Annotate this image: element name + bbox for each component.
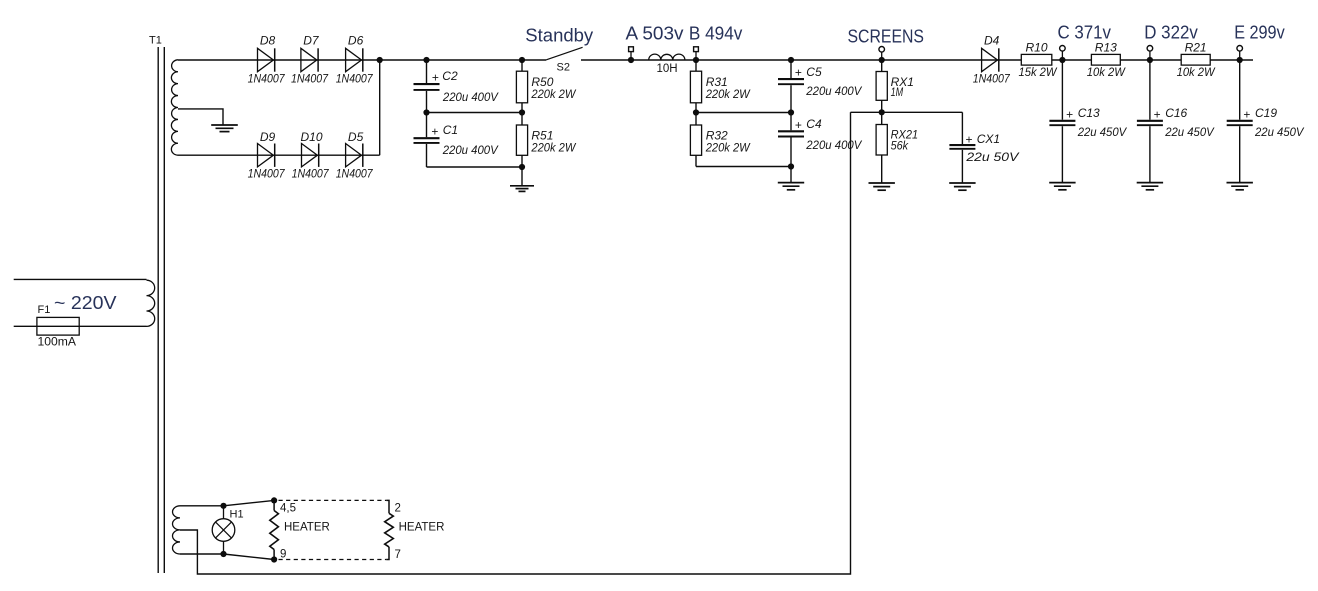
wire mains top — [14, 278, 147, 280]
capacitor C13 label — [1078, 106, 1100, 120]
capacitor C2 value — [442, 90, 499, 104]
resistor R13 label — [1095, 40, 1117, 54]
svg-text:2: 2 — [395, 503, 401, 515]
diode D8 part 1N4007 — [248, 72, 286, 86]
capacitor C19 value — [1254, 125, 1304, 139]
svg-text:R21: R21 — [1185, 40, 1207, 54]
svg-text:C2: C2 — [442, 69, 458, 83]
capacitor C5 plus — [795, 66, 802, 80]
junction dot heater pin 9 — [271, 556, 277, 562]
resistor R13 — [1091, 54, 1120, 65]
diode D6 — [346, 48, 363, 71]
wire C1 bottom to R51 — [427, 166, 523, 168]
resistor R32 — [690, 125, 701, 155]
capacitor C16 value — [1164, 125, 1214, 139]
wire R31 top lead — [695, 60, 697, 71]
svg-text:T1: T1 — [149, 35, 162, 47]
lamp H1 — [212, 506, 235, 554]
svg-text:220k 2W: 220k 2W — [530, 140, 576, 154]
svg-text:+: + — [1243, 107, 1250, 121]
wire mains bottom through fuse — [14, 325, 147, 327]
capacitor C2 label — [442, 69, 458, 83]
wire C5 bottom lead — [790, 85, 792, 112]
diode D9 — [258, 144, 275, 167]
svg-text:+: + — [432, 71, 439, 85]
junction dot R50 top — [519, 57, 525, 63]
svg-text:22u 450V: 22u 450V — [1254, 125, 1304, 139]
fuse F1 value 100mA — [38, 337, 77, 349]
wire bottom-to-top riser — [379, 60, 381, 155]
junction dot R31/R32 — [693, 109, 699, 115]
svg-text:1N4007: 1N4007 — [336, 167, 374, 181]
label E 299v — [1234, 22, 1285, 43]
wire heater bottom slope — [224, 554, 275, 560]
fuse F1 — [37, 317, 79, 335]
wire screens to bottom rail — [180, 112, 851, 574]
capacitor CX1 value — [965, 150, 1019, 164]
wire C1 bottom lead — [426, 144, 428, 167]
capacitor C19 label — [1255, 106, 1277, 120]
heater resistor left — [270, 500, 279, 559]
resistor RX21 — [876, 125, 887, 156]
svg-text:1N4007: 1N4007 — [292, 167, 330, 181]
capacitor C19 plus — [1243, 107, 1250, 121]
transformer T1 primary winding — [147, 280, 155, 326]
capacitor C1 value — [442, 143, 499, 157]
resistor R31 value — [705, 87, 751, 101]
svg-text:~ 220V: ~ 220V — [54, 292, 117, 313]
junction dot node D — [1147, 57, 1153, 63]
svg-text:R10: R10 — [1025, 40, 1047, 54]
svg-text:9: 9 — [280, 548, 286, 560]
resistor R51 label — [531, 129, 553, 143]
wire C1 top lead — [426, 113, 428, 138]
svg-text:220k 2W: 220k 2W — [705, 87, 751, 101]
wire heater bottom — [180, 553, 224, 555]
svg-text:C5: C5 — [806, 65, 822, 79]
svg-text:220k 2W: 220k 2W — [530, 87, 576, 101]
label D 322v — [1144, 22, 1198, 43]
diode D10 part 1N4007 — [292, 167, 330, 181]
diode D5 — [346, 144, 363, 167]
svg-text:D7: D7 — [303, 34, 320, 48]
wire R31R32-C5C4 tie — [696, 112, 791, 114]
diode D7 — [301, 48, 318, 71]
diode D4 part 1N4007 — [973, 72, 1011, 86]
wire R32 bottom lead — [695, 155, 697, 166]
wire R32-C4 bottom tie — [696, 166, 791, 168]
junction dot C5 top — [788, 57, 794, 63]
resistor RX21 value — [891, 138, 909, 152]
svg-text:+: + — [795, 66, 802, 80]
wire C2C1-R50R51 tie — [427, 112, 523, 114]
svg-text:4,5: 4,5 — [280, 503, 296, 515]
wire top rail left — [178, 59, 546, 61]
svg-text:220u 400V: 220u 400V — [442, 143, 499, 157]
svg-text:22u 450V: 22u 450V — [1164, 125, 1214, 139]
wire C19 top lead — [1239, 60, 1241, 120]
svg-text:220u 400V: 220u 400V — [442, 90, 499, 104]
diode D9 part 1N4007 — [248, 167, 286, 181]
svg-text:A 503v: A 503v — [626, 22, 685, 43]
resistor R21 label — [1185, 40, 1207, 54]
wire R50-R51 — [521, 103, 523, 125]
heater pin label 4,5 — [280, 503, 296, 515]
ground (below CX1) — [949, 183, 975, 190]
svg-text:10k 2W: 10k 2W — [1087, 65, 1127, 79]
transformer T1 HV secondary winding — [171, 60, 178, 155]
svg-text:15k 2W: 15k 2W — [1019, 65, 1059, 79]
capacitor C2 plus — [432, 71, 439, 85]
capacitor C16 — [1137, 121, 1163, 125]
svg-text:1N4007: 1N4007 — [973, 72, 1011, 86]
wire C13 bottom lead — [1061, 126, 1063, 182]
diode D6 label — [348, 34, 364, 48]
switch S2 lever — [546, 47, 582, 60]
svg-text:D8: D8 — [260, 34, 276, 48]
fuse F1 label — [38, 304, 51, 316]
svg-text:1N4007: 1N4007 — [248, 167, 286, 181]
wire C16 bottom lead — [1149, 126, 1151, 182]
inductor 10H label — [657, 63, 678, 75]
capacitor C5 value — [805, 84, 862, 98]
resistor RX1 — [876, 72, 887, 101]
resistor R32 label — [706, 129, 728, 143]
wire C2 top lead — [426, 60, 428, 83]
dashed tube link top — [279, 499, 387, 501]
label A 503v — [626, 22, 685, 43]
resistor R21 — [1181, 54, 1210, 65]
junction dot R51 bottom — [519, 164, 525, 170]
wire RX1 top lead — [881, 60, 883, 72]
capacitor C5 label — [806, 65, 822, 79]
capacitor C19 — [1227, 121, 1253, 125]
capacitor CX1 plus — [966, 132, 973, 146]
junction dot RX1/RX21 — [879, 109, 885, 115]
wire C4 top lead — [790, 113, 792, 131]
inductor 10H choke — [649, 54, 685, 60]
resistor R10 value — [1019, 65, 1059, 79]
svg-text:7: 7 — [395, 549, 401, 561]
heater label right — [399, 521, 445, 533]
transformer T1 heater winding — [172, 506, 180, 554]
junction dot H1 bottom — [220, 551, 226, 557]
wire C2 bottom lead — [426, 91, 428, 113]
ground (below C19) — [1227, 183, 1253, 190]
resistor R50 — [516, 71, 527, 103]
capacitor C16 plus — [1154, 107, 1161, 121]
svg-text:220u 400V: 220u 400V — [805, 84, 862, 98]
wire C5 top lead — [790, 60, 792, 78]
svg-text:220u 400V: 220u 400V — [805, 138, 862, 152]
heater pin label 2 — [395, 503, 401, 515]
svg-text:100mA: 100mA — [38, 337, 77, 349]
svg-text:CX1: CX1 — [977, 132, 1000, 146]
resistor R50 value — [530, 87, 576, 101]
wire RX1-RX21 — [881, 100, 883, 124]
capacitor C16 label — [1165, 106, 1187, 120]
wire heater top slope — [224, 500, 275, 505]
ground (below R51) — [510, 186, 534, 192]
wire CX1 top lead — [961, 112, 963, 144]
node D terminal — [1147, 46, 1153, 61]
capacitor C13 value — [1077, 125, 1127, 139]
svg-text:220k 2W: 220k 2W — [705, 140, 751, 154]
capacitor C5 — [778, 79, 804, 84]
wire CX1 bottom lead — [961, 150, 963, 183]
svg-text:+: + — [1154, 107, 1161, 121]
diode D9 label — [260, 130, 276, 144]
diode D5 part 1N4007 — [336, 167, 374, 181]
capacitor C1 — [414, 138, 440, 143]
capacitor C13 plus — [1066, 107, 1073, 121]
junction dot SCREENS — [879, 57, 885, 63]
capacitor C4 plus — [795, 118, 802, 132]
node C terminal — [1060, 46, 1066, 61]
resistor R50 label — [531, 75, 553, 89]
svg-text:H1: H1 — [230, 508, 244, 520]
svg-text:C19: C19 — [1255, 106, 1277, 120]
svg-text:1N4007: 1N4007 — [336, 72, 374, 86]
junction dot node A — [628, 57, 634, 63]
wire C13 top lead — [1061, 60, 1063, 120]
transformer T1 core — [158, 47, 164, 573]
diode D10 label — [300, 130, 322, 144]
resistor R10 — [1021, 54, 1052, 65]
label B 494v — [689, 22, 743, 43]
junction dot node C — [1059, 57, 1065, 63]
capacitor C4 value — [805, 138, 862, 152]
wire screens divider tie — [851, 111, 963, 113]
wire C16 top lead — [1149, 60, 1151, 120]
wire R50 top lead — [521, 60, 523, 71]
junction dot node E — [1237, 57, 1243, 63]
svg-text:56k: 56k — [891, 138, 909, 152]
svg-text:10H: 10H — [657, 63, 678, 75]
switch S2 label — [557, 61, 570, 73]
svg-text:+: + — [431, 125, 438, 139]
junction dot C4 bottom — [788, 163, 794, 169]
diode D4 label — [984, 33, 1000, 47]
capacitor C4 label — [806, 117, 822, 131]
capacitor C1 plus — [431, 125, 438, 139]
svg-text:B 494v: B 494v — [689, 22, 743, 43]
wire bottom diode row — [178, 154, 380, 156]
svg-text:1N4007: 1N4007 — [248, 72, 286, 86]
wire RX21 bottom lead — [881, 155, 883, 183]
svg-text:+: + — [966, 132, 973, 146]
dashed tube link bottom — [279, 559, 387, 561]
capacitor C2 — [414, 84, 440, 90]
ground (below C13) — [1049, 183, 1075, 190]
resistor R32 value — [705, 140, 751, 154]
svg-text:D4: D4 — [984, 33, 1000, 47]
resistor R21 value — [1177, 65, 1217, 79]
svg-text:D9: D9 — [260, 130, 276, 144]
svg-text:C13: C13 — [1078, 106, 1100, 120]
label ~ 220V — [54, 292, 117, 313]
resistor RX1 label — [891, 75, 914, 89]
svg-text:C16: C16 — [1165, 106, 1187, 120]
resistor R31 — [690, 71, 701, 103]
svg-text:F1: F1 — [38, 304, 51, 316]
node E terminal — [1237, 46, 1243, 61]
heater resistor right — [385, 500, 394, 559]
diode D7 part 1N4007 — [291, 72, 329, 86]
lamp H1 label — [230, 508, 244, 520]
transformer T1 label — [149, 35, 162, 47]
heater pin label 9 — [280, 548, 286, 560]
diode D8 label — [260, 34, 276, 48]
heater pin label 7 — [395, 549, 401, 561]
svg-text:22u 50V: 22u 50V — [965, 150, 1019, 164]
diode D4 — [982, 48, 999, 71]
junction dot C5/C4 — [788, 109, 794, 115]
svg-text:HEATER: HEATER — [399, 521, 445, 533]
junction dot C2/C1 — [423, 109, 429, 115]
svg-text:D10: D10 — [300, 130, 322, 144]
svg-text:22u 450V: 22u 450V — [1077, 125, 1127, 139]
svg-text:R13: R13 — [1095, 40, 1117, 54]
resistor R13 value — [1087, 65, 1127, 79]
label SCREENS — [848, 25, 925, 46]
ground (below C16) — [1137, 183, 1163, 190]
junction dot H1 top — [220, 503, 226, 509]
resistor R10 label — [1025, 40, 1047, 54]
capacitor CX1 — [949, 145, 975, 149]
wire HV secondary center tap — [178, 109, 223, 125]
svg-text:C1: C1 — [443, 123, 458, 137]
svg-text:C4: C4 — [806, 117, 822, 131]
ground (below C4) — [778, 183, 804, 190]
diode D7 label — [303, 34, 320, 48]
junction dot rectifier output — [377, 57, 383, 63]
node B terminal — [694, 47, 699, 60]
diode D6 part 1N4007 — [336, 72, 374, 86]
wire C19 bottom lead — [1239, 126, 1241, 182]
svg-text:E 299v: E 299v — [1234, 22, 1285, 43]
capacitor C13 — [1049, 121, 1075, 125]
diode D10 — [302, 144, 319, 167]
svg-text:S2: S2 — [557, 61, 570, 73]
svg-text:SCREENS: SCREENS — [848, 25, 925, 46]
wire R51 bottom lead — [521, 155, 523, 186]
label C 371v — [1058, 22, 1112, 43]
junction dot heater pin 4,5 — [271, 497, 277, 503]
junction dot R50/R51 — [519, 109, 525, 115]
ground (HV center tap) — [211, 125, 238, 132]
resistor RX1 value — [891, 85, 904, 99]
diode D8 — [258, 48, 275, 71]
node dot C2 top — [423, 57, 429, 63]
resistor R31 label — [706, 75, 728, 89]
node SCREENS terminal — [879, 47, 885, 61]
svg-text:1M: 1M — [891, 85, 904, 99]
svg-text:HEATER: HEATER — [284, 521, 330, 533]
svg-text:D5: D5 — [348, 130, 364, 144]
resistor R51 — [516, 125, 527, 155]
svg-text:D6: D6 — [348, 34, 364, 48]
wire heater top — [180, 505, 224, 507]
resistor R51 value — [530, 140, 576, 154]
junction dot node B — [693, 57, 699, 63]
wire R31-R32 — [695, 103, 697, 125]
diode D5 label — [348, 130, 364, 144]
label Standby — [525, 24, 594, 45]
svg-text:+: + — [795, 118, 802, 132]
capacitor C1 label — [443, 123, 458, 137]
wire C4 bottom lead — [790, 138, 792, 183]
svg-text:10k 2W: 10k 2W — [1177, 65, 1217, 79]
svg-text:1N4007: 1N4007 — [291, 72, 329, 86]
wire top rail right — [581, 59, 1253, 61]
node A terminal — [629, 47, 634, 60]
ground (below RX21) — [869, 183, 895, 190]
heater label left — [284, 521, 330, 533]
capacitor C4 — [778, 131, 804, 136]
svg-text:+: + — [1066, 107, 1073, 121]
capacitor CX1 label — [977, 132, 1000, 146]
svg-text:Standby: Standby — [525, 24, 594, 45]
resistor RX21 label — [891, 127, 919, 141]
